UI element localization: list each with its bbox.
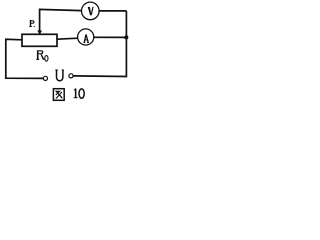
junction node dot	[124, 35, 128, 39]
caption number 1 (drawn)	[74, 89, 78, 99]
slider arrowhead	[37, 31, 42, 35]
label U (drawn)	[55, 70, 64, 81]
terminal (right, of source U)	[69, 74, 73, 78]
wire: rheostat left lead + left vertical + bottom-left run	[6, 39, 43, 78]
terminal (left, of source U)	[43, 76, 47, 80]
wire: bottom-right run + right vertical	[73, 11, 126, 77]
label R0 (drawn)	[36, 50, 44, 60]
wire: slider shaft up and top run to voltmeter	[40, 9, 82, 31]
wire: voltmeter right lead to top-right corner	[99, 10, 126, 12]
wire: rheostat right lead to ammeter	[57, 38, 78, 39]
label 0 subscript (drawn)	[45, 56, 48, 62]
rheostat R0 body	[22, 34, 57, 46]
circuit schematic: potentiometer R0 with slider P, voltmeter V, ammeter A, source U	[0, 0, 133, 103]
ammeter letter A (drawn)	[84, 34, 89, 42]
voltmeter V circle	[82, 2, 100, 20]
label P (drawn)	[29, 20, 34, 27]
caption character tu2 (figure) drawn as strokes	[53, 89, 64, 101]
voltmeter letter V (drawn)	[88, 7, 94, 15]
wire: ammeter right lead to junction	[94, 36, 125, 38]
ammeter A circle	[78, 29, 94, 45]
caption number 0 (drawn)	[79, 89, 84, 98]
